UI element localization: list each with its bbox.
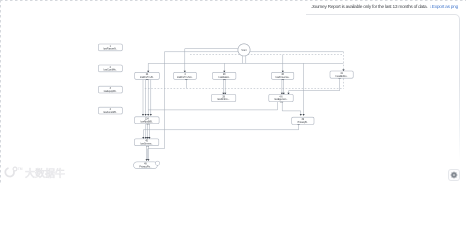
svg-text:TM: TM — [18, 167, 23, 171]
wire bus2 to C — [223, 63, 225, 71]
node L1 legend — [98, 44, 122, 51]
wire G to I — [282, 102, 301, 115]
wire bus2 — [148, 62, 343, 64]
wire G to H bus — [148, 102, 277, 110]
wire E to G — [289, 79, 340, 94]
wire B to dashed bus — [185, 79, 187, 88]
wire bus1 start-left — [164, 51, 343, 53]
node L2 legend — [98, 65, 122, 72]
arrowheads — [142, 69, 345, 161]
node K badge circle — [155, 161, 159, 165]
svg-text:lowGreens..: lowGreens.. — [140, 143, 153, 146]
wire bus2 to I — [303, 63, 305, 114]
node L3 legend — [98, 86, 122, 93]
flow diagram — [0, 0, 466, 185]
dotted crop marquee left edge — [0, 0, 1, 185]
node B — [174, 72, 197, 79]
svg-text:lowEquipMt..: lowEquipMt.. — [104, 90, 118, 93]
gear button bottom right — [448, 169, 460, 181]
wire to D — [282, 55, 284, 72]
svg-text:lowRpxBfB..: lowRpxBfB.. — [141, 121, 154, 123]
node H — [135, 117, 160, 124]
panel border (top-right card edge) — [306, 14, 460, 41]
node L4 legend — [98, 107, 122, 114]
svg-text:lowD.Germa..: lowD.Germa.. — [276, 76, 290, 79]
wire dashed mid bus — [145, 88, 344, 90]
svg-text:lowDmTm-B..: lowDmTm-B.. — [140, 77, 154, 79]
svg-text:lowAnnotMh..: lowAnnotMh.. — [103, 111, 117, 114]
svg-text:PrivacyPix..: PrivacyPix.. — [139, 166, 151, 169]
svg-text:lowFlavorsN..: lowFlavorsN.. — [103, 48, 117, 51]
svg-text:I validation..: I validation.. — [218, 76, 231, 79]
wire dashed to E — [343, 52, 345, 70]
top message text — [311, 5, 458, 10]
svg-text:PrivacyB..: PrivacyB.. — [298, 121, 309, 124]
svg-text:Start: Start — [241, 48, 247, 52]
wire I to J — [143, 124, 298, 137]
svg-text:lowDmFm-..: lowDmFm-.. — [217, 99, 230, 101]
node J — [135, 139, 159, 146]
node A — [135, 72, 160, 79]
node E — [330, 71, 353, 78]
wire D to G — [282, 80, 284, 94]
wire cluster A to H — [143, 80, 151, 115]
svg-text:lowDmTm-Sm..: lowDmTm-Sm.. — [177, 77, 193, 79]
wire start bottom drops — [242, 56, 246, 64]
wire dashed E bottom to bus — [343, 79, 345, 89]
wire bus2 to A — [147, 63, 149, 71]
node start circle — [238, 44, 250, 56]
wire dashed start bus right — [190, 54, 343, 56]
svg-text:lowEgensm..: lowEgensm.. — [274, 99, 288, 101]
svg-text:InvalidoNo..: InvalidoNo.. — [336, 76, 348, 78]
panel right border fade — [459, 39, 460, 161]
node D — [272, 72, 294, 79]
dotted crop marquee top edge — [0, 0, 466, 1]
node K pill — [134, 161, 160, 169]
watermark logo — [3, 165, 64, 185]
node F — [211, 94, 235, 101]
wire J to K — [147, 145, 149, 160]
node I — [292, 117, 314, 124]
node C — [213, 72, 236, 79]
wire start to B — [185, 49, 238, 72]
wire H to J cluster — [146, 124, 150, 138]
svg-text:lowCustMrk..: lowCustMrk.. — [104, 69, 118, 72]
port marks — [146, 79, 149, 80]
wire C to F — [223, 80, 225, 94]
wire long vertical to K — [148, 52, 165, 160]
node G — [269, 94, 293, 101]
